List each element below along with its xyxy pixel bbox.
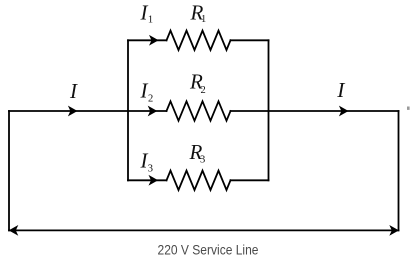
svg-text:3: 3 (148, 164, 153, 175)
resistor R2 (167, 101, 231, 120)
svg-text:220 V Service Line: 220 V Service Line (158, 243, 259, 258)
wire: bottom service line (9, 229, 399, 231)
svg-text:1: 1 (148, 15, 153, 26)
svg-text:I: I (336, 78, 345, 102)
wire: bottom branch right (231, 179, 269, 181)
svg-text:I: I (69, 79, 78, 103)
resistor R1 (167, 31, 231, 50)
wire: top branch left (128, 39, 167, 41)
resistor R3 (167, 171, 231, 190)
wire: top branch right (231, 39, 269, 41)
wire: right output horizontal (231, 110, 399, 112)
svg-text:2: 2 (148, 93, 153, 104)
arrow current I1 (150, 36, 158, 45)
svg-text:2: 2 (201, 85, 206, 96)
arrow current I right (340, 107, 348, 116)
svg-text:3: 3 (200, 154, 205, 165)
stray mark right edge (407, 107, 410, 110)
wire: right bus vertical (268, 40, 270, 180)
wire: right vertical return (398, 111, 400, 230)
wire: bottom branch left (128, 179, 167, 181)
wire: left feed horizontal (9, 110, 167, 112)
wire: left vertical return (8, 111, 10, 230)
wire: left bus vertical (127, 40, 129, 180)
svg-text:1: 1 (201, 14, 206, 25)
arrow current I left (69, 107, 77, 116)
arrow current I3 (150, 176, 158, 185)
arrow bottom-right service line (390, 226, 398, 235)
arrow current I2 (149, 107, 157, 116)
arrow bottom-left service line (10, 226, 18, 235)
